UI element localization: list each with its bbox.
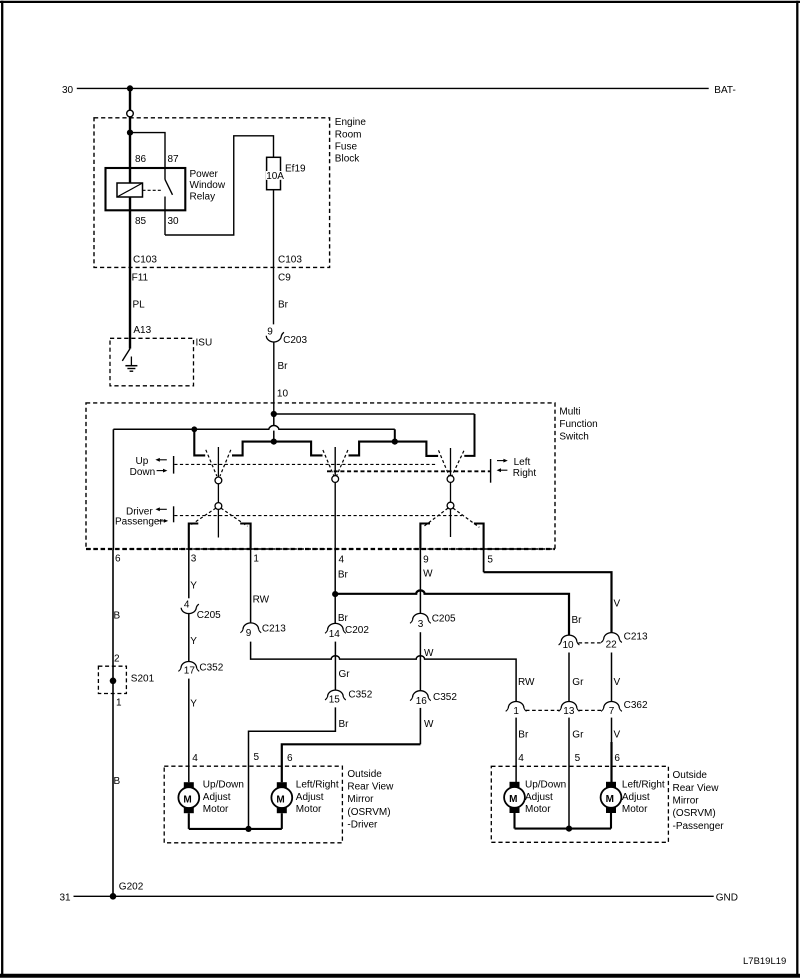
- wire pin 1 contact: [240, 524, 250, 551]
- svg-text:Y: Y: [190, 636, 197, 647]
- wire SW2 left contact: [274, 442, 323, 456]
- svg-text:6: 6: [287, 753, 293, 764]
- svg-text:Up/Down: Up/Down: [525, 780, 566, 791]
- svg-text:M: M: [509, 794, 517, 805]
- motor M passenger up-down: [504, 780, 566, 815]
- label Driver with arrow: [126, 506, 167, 517]
- splice S201: [98, 666, 154, 693]
- svg-text:V: V: [614, 729, 621, 740]
- svg-text:Ef19: Ef19: [285, 163, 306, 174]
- connector C352 pin 16: [410, 691, 457, 707]
- svg-text:10: 10: [563, 640, 575, 651]
- switch SW1 dashed actuate diagonals top: [206, 450, 231, 476]
- label Left with arrow: [497, 457, 531, 468]
- connector C352 pin 17: [178, 662, 223, 677]
- svg-text:87: 87: [168, 154, 180, 165]
- svg-text:Engine: Engine: [335, 117, 367, 128]
- svg-text:Multi: Multi: [559, 406, 580, 417]
- svg-text:S201: S201: [131, 674, 155, 685]
- wire Y pin3 down: [189, 550, 197, 598]
- dashed actuation line Driver Passenger: [174, 515, 462, 517]
- wire B pin6 down: [113, 550, 122, 896]
- switch SW1 dashed diagonals bottom: [190, 508, 248, 526]
- svg-text:1: 1: [116, 697, 122, 708]
- wire pin 6 vertical: [112, 429, 114, 550]
- svg-text:Br: Br: [278, 300, 289, 311]
- dashed actuation line Left Right: [327, 470, 490, 472]
- svg-text:W: W: [424, 719, 434, 730]
- svg-text:Br: Br: [518, 729, 529, 740]
- wire Br C362 to passenger pin4: [516, 718, 529, 783]
- svg-text:C202: C202: [345, 625, 369, 636]
- svg-text:86: 86: [135, 154, 147, 165]
- wire battery feed to relay: [129, 88, 131, 183]
- svg-text:Window: Window: [190, 180, 226, 191]
- svg-text:C205: C205: [432, 613, 456, 624]
- wire relay 85 output: [129, 197, 131, 349]
- connector C213 pin 10: [559, 635, 580, 651]
- svg-text:13: 13: [563, 706, 575, 717]
- svg-text:7: 7: [609, 706, 615, 717]
- svg-text:Gr: Gr: [572, 729, 584, 740]
- svg-text:C203: C203: [283, 335, 307, 346]
- dashed link C362 1-13: [526, 709, 559, 711]
- wire W pin9 down: [420, 550, 433, 613]
- svg-text:Gr: Gr: [572, 677, 584, 688]
- svg-text:Br: Br: [572, 615, 583, 626]
- label Right with arrow: [497, 468, 537, 479]
- dashed link C362 13-7: [579, 709, 602, 711]
- connector C213 pin 9: [240, 623, 286, 639]
- switch SW1 wiper: [217, 447, 219, 538]
- svg-text:Gr: Gr: [339, 669, 351, 680]
- dashed actuation line Up Down: [174, 463, 436, 465]
- actuator bar Driver Passenger: [173, 506, 175, 522]
- svg-text:1: 1: [513, 706, 519, 717]
- svg-text:F11: F11: [132, 273, 149, 284]
- svg-text:M: M: [606, 794, 614, 805]
- connector C362 pin 13: [559, 702, 580, 717]
- svg-text:GND: GND: [716, 892, 738, 903]
- svg-text:5: 5: [487, 554, 493, 565]
- junction dot ground G202: [110, 893, 117, 900]
- wire passenger motor leads and bus: [515, 813, 612, 829]
- svg-text:Y: Y: [190, 581, 197, 592]
- ISU switch blade: [122, 349, 130, 361]
- wire Br C352 to driver pin5: [249, 707, 350, 829]
- relay K1 Power Window Relay: [106, 154, 226, 227]
- svg-text:3: 3: [418, 619, 424, 630]
- wire supply top rail: [274, 413, 475, 415]
- svg-text:Br: Br: [338, 570, 349, 581]
- svg-text:ISU: ISU: [196, 337, 213, 348]
- wire common bus drop: [394, 429, 396, 441]
- wire Gr C202 to C352: [335, 642, 350, 691]
- junction dot supply fork: [271, 439, 277, 445]
- svg-text:4: 4: [339, 554, 345, 565]
- switch SW2 dashed diagonals: [323, 450, 348, 476]
- wire Br C203 to MFS: [274, 342, 289, 414]
- svg-text:Motor: Motor: [622, 804, 648, 815]
- svg-text:Block: Block: [335, 154, 360, 165]
- svg-text:Outside: Outside: [347, 769, 382, 780]
- svg-text:4: 4: [192, 753, 198, 764]
- svg-text:10: 10: [277, 389, 289, 400]
- motor M driver up-down: [178, 780, 244, 815]
- connector C205 pin 3: [410, 613, 456, 629]
- svg-text:Up/Down: Up/Down: [203, 780, 244, 791]
- actuator bar Up Down: [173, 456, 175, 474]
- motor M driver left-right: [271, 780, 338, 815]
- wire supply under hop upper: [273, 414, 275, 425]
- svg-text:RW: RW: [253, 595, 270, 606]
- switch SW2 wiper: [334, 447, 336, 550]
- wire V C213 to C362: [612, 653, 621, 702]
- svg-text:Mirror: Mirror: [347, 794, 374, 805]
- junction dot MFS supply top: [271, 411, 277, 417]
- svg-text:-Driver: -Driver: [347, 820, 378, 831]
- junction dot relay feed split: [127, 130, 133, 136]
- motor M passenger left-right: [601, 780, 665, 815]
- svg-text:5: 5: [575, 753, 581, 764]
- svg-text:Br: Br: [338, 613, 349, 624]
- svg-text:15: 15: [329, 694, 341, 705]
- svg-text:L7B19L19: L7B19L19: [743, 956, 786, 967]
- junction dot at bus 30: [127, 85, 133, 91]
- wire V C362 to passenger pin6: [612, 718, 621, 783]
- svg-text:4: 4: [184, 600, 190, 611]
- svg-text:Left/Right: Left/Right: [296, 780, 339, 791]
- bus 30 BAT-: [62, 85, 736, 96]
- dashed link C213 10-22: [579, 642, 603, 644]
- connector circle C103 entry: [127, 110, 134, 117]
- fuse Ef19 10A: [266, 157, 306, 189]
- wire common bus pin6 with hop: [113, 426, 394, 430]
- svg-text:Left: Left: [514, 457, 531, 468]
- svg-text:B: B: [114, 776, 121, 787]
- switch SW3 pivot circles: [447, 476, 454, 483]
- connector C213 pin 22: [601, 631, 648, 650]
- Outside Rear View Mirror Passenger box: [491, 766, 724, 842]
- wire pin 5 contact: [474, 524, 484, 551]
- junction dot Br branch: [332, 591, 338, 597]
- label C103 C9 Br right: [278, 255, 302, 311]
- svg-text:9: 9: [423, 554, 429, 565]
- connector C362 pin 1: [506, 702, 527, 717]
- svg-text:M: M: [183, 794, 191, 805]
- svg-text:10A: 10A: [266, 171, 284, 182]
- svg-text:1: 1: [253, 553, 259, 564]
- label C103 F11 PL A13: [132, 255, 158, 337]
- wire W to driver pin6: [282, 708, 434, 782]
- connector C205 pin 4: [181, 600, 221, 621]
- svg-text:C352: C352: [348, 689, 372, 700]
- svg-text:Motor: Motor: [203, 804, 229, 815]
- svg-text:Rear View: Rear View: [347, 782, 394, 793]
- connector C362 pin 7: [601, 700, 648, 717]
- svg-text:G202: G202: [119, 882, 144, 893]
- svg-text:Motor: Motor: [296, 804, 322, 815]
- wire driver motor leads and bus: [189, 813, 282, 829]
- svg-text:17: 17: [184, 666, 196, 677]
- junction dot driver common: [245, 826, 251, 832]
- svg-text:V: V: [614, 677, 621, 688]
- svg-text:C213: C213: [624, 631, 648, 642]
- svg-text:5: 5: [254, 752, 260, 763]
- svg-text:9: 9: [267, 327, 273, 338]
- Multi Function Switch box: [86, 403, 598, 549]
- svg-text:Br: Br: [339, 719, 350, 730]
- wire RW pin1 down: [251, 550, 270, 623]
- wire pin 3 contact: [189, 524, 199, 551]
- svg-text:Fuse: Fuse: [335, 142, 358, 153]
- svg-text:85: 85: [135, 216, 147, 227]
- wire SW3 right contact: [464, 414, 474, 456]
- wire pin5 MFS to V: [483, 550, 485, 572]
- svg-text:C103: C103: [278, 255, 302, 266]
- wire Br branch to passenger with hop: [335, 590, 569, 635]
- svg-text:M: M: [276, 794, 284, 805]
- svg-text:Relay: Relay: [190, 191, 216, 202]
- svg-text:A13: A13: [133, 325, 151, 336]
- wire W C205 to C352: [420, 632, 434, 691]
- svg-text:Mirror: Mirror: [673, 796, 700, 807]
- svg-text:2: 2: [114, 653, 120, 664]
- svg-text:31: 31: [60, 892, 72, 903]
- svg-text:-Passenger: -Passenger: [673, 821, 725, 832]
- wire fuse output: [273, 190, 275, 325]
- svg-text:C352: C352: [433, 692, 457, 703]
- svg-text:V: V: [614, 598, 621, 609]
- svg-text:RW: RW: [518, 677, 535, 688]
- connector C202 pin 14: [325, 623, 369, 640]
- svg-text:Power: Power: [190, 169, 219, 180]
- svg-text:W: W: [423, 569, 433, 580]
- wire Y C205 to C352: [189, 613, 197, 661]
- svg-text:16: 16: [416, 696, 428, 707]
- wire Br pin4 down: [335, 550, 348, 624]
- junction dot passenger common: [566, 826, 572, 832]
- svg-text:Right: Right: [513, 468, 537, 479]
- svg-text:30: 30: [62, 85, 74, 96]
- svg-text:(OSRVM): (OSRVM): [347, 807, 390, 818]
- ground in ISU: [125, 357, 137, 372]
- svg-text:PL: PL: [133, 300, 146, 311]
- switch SW3 dashed diagonals top: [439, 450, 464, 476]
- wire Y C352 to mirror: [189, 679, 198, 783]
- svg-text:Up: Up: [136, 456, 149, 467]
- wire C203 supply drop to fork: [273, 431, 275, 442]
- bus 31 GND: [60, 882, 738, 904]
- svg-text:W: W: [424, 648, 434, 659]
- svg-text:B: B: [114, 611, 121, 622]
- svg-text:3: 3: [191, 553, 197, 564]
- wire branch to relay pin 87: [130, 133, 165, 168]
- wire RW across with hops: [251, 642, 516, 702]
- label Down with arrow: [130, 467, 168, 478]
- svg-text:Function: Function: [559, 419, 597, 430]
- svg-text:6: 6: [614, 753, 620, 764]
- svg-text:Down: Down: [130, 467, 156, 478]
- relay coil: [117, 183, 162, 197]
- svg-text:Switch: Switch: [559, 431, 588, 442]
- wire V feed across: [484, 572, 612, 632]
- ISU box: [110, 337, 212, 385]
- svg-text:C213: C213: [262, 624, 286, 635]
- wire SW3 left contact: [395, 442, 438, 456]
- svg-text:Room: Room: [335, 129, 362, 140]
- svg-text:Y: Y: [190, 699, 197, 710]
- wire SW1 right contact: [232, 442, 274, 456]
- svg-text:Br: Br: [278, 361, 289, 372]
- svg-text:22: 22: [606, 639, 618, 650]
- label Up with arrow: [136, 456, 167, 467]
- svg-text:Rear View: Rear View: [673, 783, 720, 794]
- switch SW1 pivot circles: [215, 477, 222, 484]
- junction dot SW1 left contact tap: [191, 426, 197, 432]
- wire Gr C213 to C362: [569, 653, 584, 702]
- connector C203 pin 9: [266, 327, 307, 346]
- svg-text:4: 4: [518, 753, 524, 764]
- svg-text:9: 9: [246, 628, 252, 639]
- svg-text:Adjust: Adjust: [525, 792, 553, 803]
- svg-text:C103: C103: [133, 255, 157, 266]
- junction dot common bus SW3: [392, 439, 398, 445]
- Outside Rear View Mirror Driver box: [164, 766, 394, 843]
- svg-text:Passenger: Passenger: [115, 516, 163, 527]
- wire SW1 left contact: [194, 429, 205, 455]
- wire pin 9 contact: [420, 524, 430, 551]
- svg-text:BAT-: BAT-: [714, 85, 735, 96]
- switch SW3 wiper: [450, 448, 452, 537]
- svg-text:30: 30: [168, 216, 180, 227]
- Engine Room Fuse Block box: [94, 117, 366, 267]
- connector C352 pin 15: [325, 689, 373, 705]
- svg-text:C9: C9: [278, 273, 291, 284]
- switch SW2 pivot circle: [332, 476, 339, 483]
- wire Gr C362 to passenger pin5: [569, 718, 584, 829]
- pin labels MFS bottom: [115, 553, 493, 565]
- svg-text:Adjust: Adjust: [296, 792, 324, 803]
- svg-text:Adjust: Adjust: [622, 792, 650, 803]
- switch SW3 dashed diagonals bottom: [423, 508, 479, 527]
- svg-text:14: 14: [329, 629, 341, 640]
- label Passenger with arrow: [115, 516, 168, 527]
- svg-text:Motor: Motor: [525, 804, 551, 815]
- svg-text:Left/Right: Left/Right: [622, 780, 665, 791]
- actuator bar Left Right: [490, 459, 492, 483]
- svg-text:Adjust: Adjust: [203, 792, 231, 803]
- svg-text:C362: C362: [624, 700, 648, 711]
- svg-text:C205: C205: [197, 610, 221, 621]
- svg-text:(OSRVM): (OSRVM): [673, 808, 716, 819]
- svg-text:C352: C352: [199, 662, 223, 673]
- svg-text:6: 6: [115, 553, 121, 564]
- relay switch contact 87-30: [165, 168, 173, 235]
- wire relay 30 to fuse: [165, 136, 274, 235]
- svg-text:Outside: Outside: [673, 770, 708, 781]
- wire SW2 right contact: [349, 442, 395, 456]
